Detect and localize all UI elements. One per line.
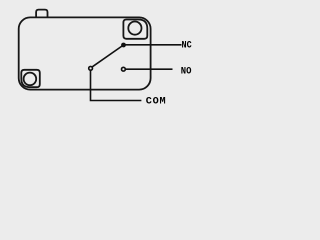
svg-text:NC: NC <box>182 41 192 52</box>
top-right mounting hole <box>128 22 141 35</box>
NO lead wire <box>126 68 173 70</box>
top-right mounting boss <box>123 20 147 39</box>
NC lead wire <box>124 44 182 46</box>
NO contact circle <box>122 67 126 71</box>
switch arm to NC contact <box>92 45 123 67</box>
plunger button <box>36 10 47 18</box>
NC contact dot <box>121 43 126 48</box>
bottom-left mounting boss <box>21 70 40 87</box>
svg-text:NO: NO <box>181 66 192 77</box>
bottom-left mounting hole <box>24 73 37 86</box>
switch body outline <box>19 17 151 89</box>
svg-text:COM: COM <box>146 96 166 107</box>
COM pivot circle <box>89 66 93 70</box>
COM lead wire <box>91 71 142 101</box>
